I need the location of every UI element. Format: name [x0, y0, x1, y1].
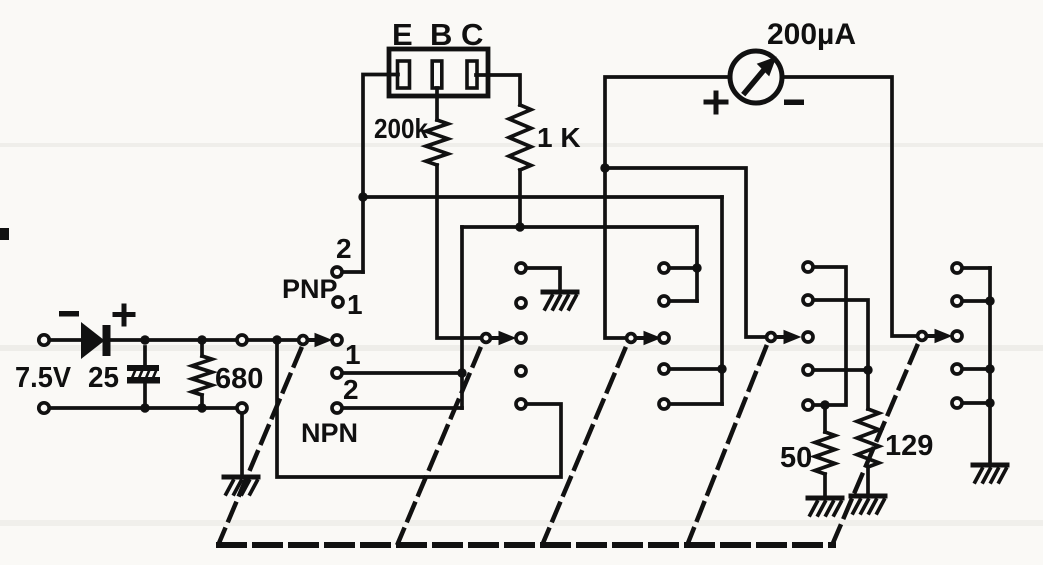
node 129 top [863, 365, 872, 374]
svg-text:2: 2 [343, 374, 359, 405]
wire to test point [202, 338, 234, 342]
label minus (meter) [784, 100, 804, 106]
svg-text:50: 50 [780, 442, 812, 474]
node resistor 680 bottom [197, 403, 206, 412]
wire net y227 across [462, 225, 697, 229]
ground (R4 50) [808, 498, 842, 515]
switch S1b contact 4 [516, 366, 526, 376]
wire S1d contact2 down to 129 [816, 300, 868, 409]
wire S1c contact4 right [672, 367, 722, 371]
wire S1b contact1 to ground [529, 268, 560, 289]
node S1e contact5 [985, 398, 994, 407]
wire test point to junction [250, 338, 277, 342]
node NPN contact1 join [457, 368, 466, 377]
wire S1e bus down to ground [988, 268, 992, 462]
switch S1b contact 5 [516, 399, 526, 409]
capacitor C1 25uF [127, 347, 160, 402]
svg-text:1 K: 1 K [537, 122, 581, 153]
wire S1e contact1 right [965, 266, 990, 270]
switch S1a pole [299, 336, 308, 345]
label plus (diode) [115, 306, 133, 324]
switch S1a wiper arrow [310, 334, 331, 347]
wire node to S1a pole [277, 338, 296, 342]
svg-text:1: 1 [345, 339, 361, 370]
switch S1d contact 5 [803, 400, 813, 410]
socket slot C [467, 61, 477, 88]
wire meter minus to S1e pole [782, 77, 915, 336]
wire meter plus to S1c pole [605, 77, 730, 338]
node capacitor top [140, 335, 149, 344]
switch S1e contact 5 [952, 398, 962, 408]
wire branch to S1d pole [605, 168, 764, 337]
switch S1e contact 2 [952, 296, 962, 306]
meter M1 200uA [730, 51, 782, 103]
switch S1c contact 1 [659, 263, 669, 273]
node S1e contact4 [985, 364, 994, 373]
switch S1b wiper arrow [493, 332, 515, 345]
socket slot B [432, 61, 442, 88]
svg-text:PNP: PNP [282, 274, 338, 304]
node 1K / net y227 [515, 222, 524, 231]
wire S1c contact5 right [672, 402, 722, 406]
dashed link S1e [833, 346, 917, 543]
switch S1a contact NPN-1 [332, 368, 342, 378]
wire socket C pin right and down [476, 75, 520, 105]
wire S1c contact1 right [672, 266, 697, 270]
wire net y197 across [363, 195, 722, 199]
wire S1b contact5 to loop box [277, 340, 561, 477]
switch S1b contact 1 [516, 263, 526, 273]
dashed mechanical link bar [219, 542, 833, 548]
wire NPN-1 to net [345, 371, 462, 375]
node S1c contact1 join [692, 263, 701, 272]
switch S1a contact NPN-2 [332, 403, 342, 413]
svg-text:1: 1 [347, 289, 363, 320]
resistor R1 680 [192, 346, 212, 402]
switch S1e wiper arrow [929, 330, 951, 343]
wire S1d contact1 to contact5 [816, 267, 846, 405]
switch S1e pole [918, 332, 927, 341]
node resistor 680 top [197, 335, 206, 344]
switch S1d contact 4 [803, 365, 813, 375]
switch S1a contact PNP-1 [333, 297, 343, 307]
svg-text:200µA: 200µA [767, 18, 856, 51]
svg-text:C: C [461, 17, 483, 52]
test point circle (top) [237, 335, 247, 345]
svg-text:7.5V: 7.5V [15, 362, 72, 394]
switch S1b contact 2 [516, 298, 526, 308]
svg-text:2: 2 [336, 233, 352, 264]
node E line / horizontal net [358, 192, 367, 201]
switch S1d contact 3 [803, 332, 813, 342]
switch S1c contact 2 [659, 296, 669, 306]
dashed link S1c [543, 349, 625, 543]
resistor R4 50 [815, 405, 835, 495]
label minus (diode) [59, 311, 79, 317]
switch S1d wiper arrow [778, 331, 800, 344]
wire cap node to resistor node [145, 338, 202, 342]
node 50 top [820, 400, 829, 409]
wire net y227 right side down [695, 227, 699, 301]
ground (S1b) [543, 292, 577, 309]
resistor R2 200k [426, 120, 448, 165]
ground (battery) [224, 477, 258, 494]
svg-text:B: B [430, 17, 452, 52]
node S1e contact2 [985, 296, 994, 305]
switch S1b pole [482, 334, 491, 343]
svg-text:E: E [392, 17, 413, 52]
switch S1d contact 1 [803, 262, 813, 272]
node feed S1a pole [272, 335, 281, 344]
wire test point to ground [240, 416, 244, 474]
node S1c contact4 join [717, 364, 726, 373]
switch S1d contact 2 [803, 295, 813, 305]
dashed link S1b [398, 349, 480, 543]
svg-text:680: 680 [215, 363, 263, 395]
wire NPN-2 to net [345, 406, 462, 410]
scan band artifacts [0, 143, 1043, 526]
wire net y197 down right side [720, 197, 724, 404]
node meter branch [600, 163, 609, 172]
svg-text:25: 25 [88, 362, 119, 394]
switch S1b contact 3 [516, 333, 526, 343]
wire 1K down to net y227 [518, 170, 522, 227]
wire S1e contact5 right [965, 401, 990, 405]
transistor socket outline [389, 49, 488, 96]
switch S1c contact 5 [659, 399, 669, 409]
test point circle (bottom) [237, 403, 247, 413]
wire diode to capacitor node [110, 338, 145, 342]
svg-text:129: 129 [885, 430, 933, 462]
wire S1d contact4 right [816, 368, 868, 372]
dashed link S1a [219, 349, 301, 543]
wire S1e contact4 right [965, 367, 990, 371]
battery terminal + (top) [39, 335, 49, 345]
battery terminal - (bottom) [39, 403, 49, 413]
svg-text:200k: 200k [374, 113, 428, 144]
wire S1e contact2 right [965, 299, 990, 303]
switch S1a contact PNP-2 [332, 267, 342, 277]
wire net y227 left side down to NPN contacts [460, 227, 464, 408]
switch S1c wiper arrow [638, 332, 660, 345]
svg-text:NPN: NPN [301, 418, 358, 448]
switch S1a contact center [332, 335, 342, 345]
switch S1e contact 3 [952, 331, 962, 341]
wire battery bottom rail [51, 406, 234, 410]
node capacitor bottom [140, 403, 149, 412]
wire socket E pin down to PNP contact 2 [363, 75, 398, 273]
wire PNP-2 to E net [345, 270, 363, 274]
switch S1d pole [767, 333, 776, 342]
switch S1e contact 1 [952, 263, 962, 273]
wire S1c contact2 right [672, 299, 697, 303]
socket slot E [398, 61, 410, 88]
scan blob artifact left edge [0, 228, 9, 240]
wire 200k to S1b pole [437, 165, 480, 338]
ground (S1e) [973, 465, 1007, 482]
wire battery top to diode [51, 338, 82, 342]
ground (R5 129) [851, 496, 885, 513]
wire socket B pin down through 200k [435, 88, 439, 120]
dashed link S1d [688, 347, 766, 543]
diode D1 [82, 324, 111, 357]
switch S1e contact 4 [952, 364, 962, 374]
switch S1c pole [627, 334, 636, 343]
resistor R5 129 [857, 409, 879, 493]
label plus (meter) [706, 93, 726, 112]
switch S1c contact 4 [659, 364, 669, 374]
switch S1c contact 3 [659, 333, 669, 343]
resistor R3 1K [509, 105, 531, 170]
